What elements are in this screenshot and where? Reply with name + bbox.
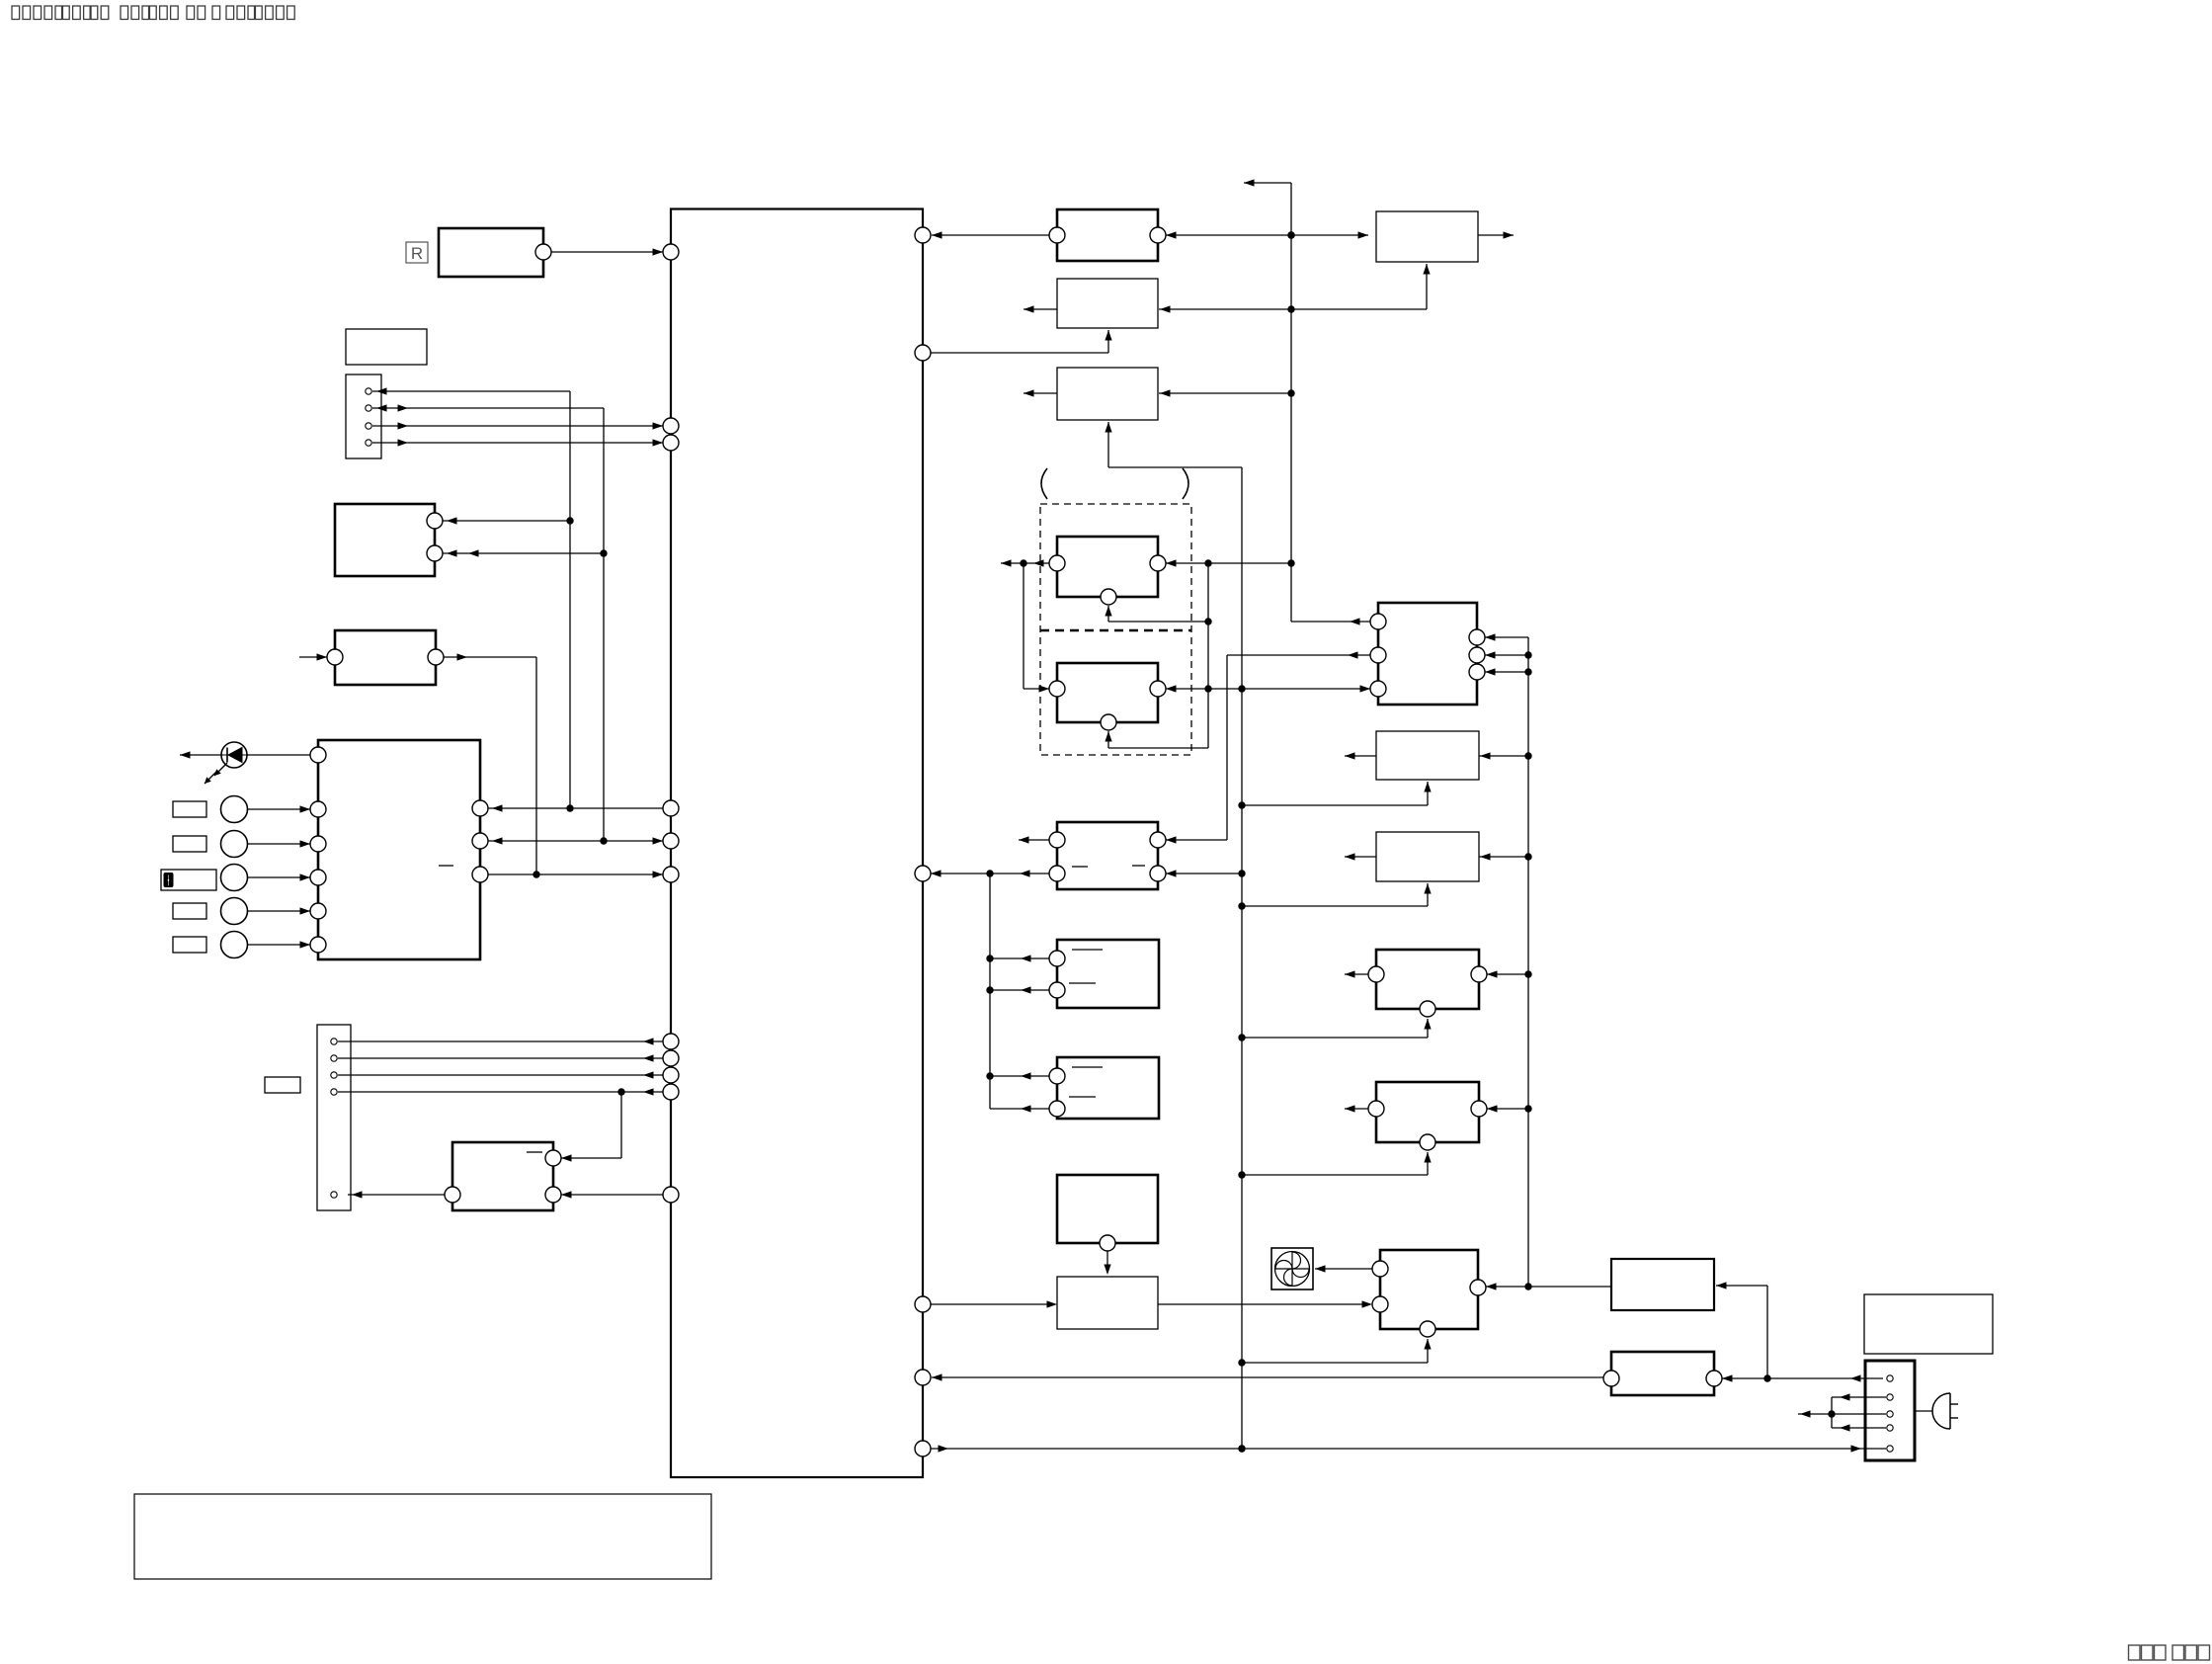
pin U1 right 1320	[915, 1296, 931, 1312]
wire row4 tap to Y1 upper-right pin	[561, 1092, 621, 1162]
wire to D2 bottom	[1105, 731, 1208, 748]
wire rail1257 to T4 bottom	[1105, 422, 1242, 467]
wire W2 pin2 to bus	[990, 1105, 1049, 1112]
wire V1 upper-left out	[1019, 836, 1049, 843]
wire U1 to R2 left	[932, 1373, 1603, 1380]
wire CN1 pin4 to U1	[372, 439, 663, 446]
net S1pin2 to V1 right-upper	[1166, 651, 1370, 843]
wires knobs to K1	[248, 805, 310, 948]
wire U1 to Y1 lower-right pin	[561, 1191, 663, 1198]
block M1	[1376, 731, 1479, 780]
wire M3 out left	[1345, 970, 1368, 977]
block D1 (optional)	[1049, 537, 1166, 605]
wire W1 pin1 to bus	[990, 955, 1049, 961]
wire T2 bottom feed	[1291, 264, 1431, 309]
wire M4 out left	[1345, 1105, 1368, 1112]
label box L2	[265, 1077, 300, 1093]
wire X1 to X2	[1104, 1251, 1110, 1275]
wire rail1257 to M2 bottom	[1242, 883, 1432, 906]
label box L1	[346, 329, 427, 365]
wire rail1257 to M1 bottom	[1242, 782, 1432, 805]
mains connector CN3	[1865, 1361, 1915, 1460]
wire D1 output left	[1001, 559, 1049, 566]
main system-control IC U1	[671, 209, 923, 1478]
wire T3 output left	[1024, 305, 1057, 312]
block M3 (thick)	[1368, 950, 1487, 1017]
wire T1 right to trunk to T2	[1166, 231, 1368, 238]
block T4	[1057, 368, 1158, 420]
front-panel key block K1	[310, 740, 488, 959]
block R1	[1611, 1259, 1714, 1310]
wire D2 right / rail to S1 pin3	[1166, 685, 1370, 692]
block X2	[1057, 1277, 1158, 1329]
wire rail to M1 right	[1479, 752, 1528, 759]
wire W2 pin1 to bus	[990, 1072, 1049, 1079]
wire feed to D1 right	[1166, 559, 1291, 566]
pin U1 left 1071	[663, 1050, 679, 1066]
wire T2 output	[1478, 231, 1514, 238]
AC plug symbol	[1915, 1393, 1958, 1429]
wire P2 to fan	[1315, 1265, 1372, 1272]
block T3	[1057, 279, 1158, 328]
title text placeholder boxes (missing glyphs)	[12, 6, 294, 20]
wire CN2 row4	[338, 1088, 663, 1095]
wire K1 row3 to U1	[488, 871, 663, 877]
wire V0 output to keys row3	[444, 653, 540, 877]
wire rail to M2 right	[1479, 853, 1528, 860]
driver block Y1	[445, 1142, 561, 1210]
key label rects	[173, 801, 206, 953]
power rail vertical x1257	[1238, 467, 1245, 1453]
block R3	[1864, 1294, 1993, 1354]
notes box	[134, 1494, 711, 1579]
wire B2 pin1 from vertical bus	[443, 517, 574, 524]
bottom-right page-number placeholder boxes	[2129, 1645, 2210, 1660]
block V1 (mute)	[1049, 822, 1166, 889]
pin U1 left 255	[663, 244, 679, 260]
wire input to V0	[299, 653, 327, 660]
block W1	[1049, 940, 1159, 1008]
connector CN1	[346, 374, 381, 458]
wire CN1 pin3 to U1	[372, 422, 663, 429]
pin U1 left 431	[663, 418, 679, 434]
wire CN2 row1	[338, 1038, 663, 1044]
wire to D1 bottom	[1105, 606, 1208, 622]
wire CN2 row3	[338, 1071, 663, 1078]
block W2	[1049, 1057, 1159, 1119]
wire rail to M4 right	[1487, 1105, 1528, 1112]
wire U1 to X2	[931, 1300, 1057, 1307]
wire rail1257 to P2 bottom	[1242, 1339, 1432, 1363]
wire M2 out left	[1345, 853, 1376, 860]
wire rail to M3 right	[1487, 970, 1528, 977]
pin U1 right 357	[915, 345, 931, 361]
wire CN1 pin1 net	[372, 387, 570, 808]
connector CN2	[317, 1025, 351, 1210]
selector block S1	[1370, 603, 1485, 705]
wire B2 pin2 from vertical bus	[443, 549, 608, 556]
wire K1 row1 to U1	[488, 804, 663, 811]
wire T4 output left	[1024, 389, 1057, 396]
wire CN3 pin3 output left	[1798, 1397, 1886, 1428]
bluetooth label rect	[161, 870, 216, 890]
LED D1 with wire	[180, 742, 310, 768]
pin U1 left 1054	[663, 1034, 679, 1049]
wire trunk to T3 right	[1159, 305, 1291, 312]
wire V1 lower-left to U1	[931, 870, 1049, 876]
wire rail to S1 right pin1	[1485, 633, 1528, 640]
wire trunk to T4 right	[1159, 389, 1291, 396]
interface block B2	[335, 504, 443, 576]
wire U1 to T1	[932, 231, 1049, 238]
wire to R2 right pin	[1722, 1374, 1771, 1381]
pin U1 left 448	[663, 435, 679, 451]
wire X2 to P2	[1158, 1300, 1372, 1307]
wire CN3 pin2 to bus	[1832, 1393, 1886, 1400]
buffer block V0	[327, 630, 444, 685]
pin U1 right 238	[915, 227, 931, 243]
wire K1 row2 to U1	[488, 837, 663, 844]
pin U1 left 851	[663, 833, 679, 849]
pin U1 left 885	[663, 867, 679, 882]
block M2	[1376, 832, 1479, 881]
pin U1 left 818	[663, 800, 679, 816]
wire rail to S1 right pin3	[1485, 668, 1528, 675]
wire M1 out left	[1345, 752, 1376, 759]
wire rail to S1 right pin2	[1485, 651, 1528, 658]
sensor block X1	[1057, 1175, 1158, 1251]
block D2 (optional)	[1049, 663, 1166, 730]
LED light rays	[205, 763, 227, 784]
trunk bus vertical x1307	[1244, 179, 1295, 622]
feed bus x1223	[1204, 563, 1211, 748]
wire R2 net to mains connector	[1767, 1374, 1883, 1381]
pin U1 right 1394	[915, 1370, 931, 1385]
wire rail1257 to M4 bottom	[1242, 1152, 1432, 1175]
wire S1 pin1 to trunk	[1291, 618, 1370, 624]
pin U1 right 1466	[915, 1441, 931, 1456]
block T2	[1376, 211, 1478, 262]
feed bus x1002	[986, 874, 993, 1109]
pin U1 right 884	[915, 866, 931, 881]
dashed optional boundary	[1040, 504, 1191, 755]
pin U1 left 1105	[663, 1084, 679, 1100]
wire U1 to T3 bottom	[931, 330, 1112, 353]
block M4 (thick)	[1368, 1082, 1487, 1150]
wire W1 pin2 to bus	[990, 986, 1049, 993]
fan icon	[1271, 1248, 1313, 1290]
wire CN2 row2	[338, 1054, 663, 1061]
power control block P2	[1372, 1250, 1486, 1337]
svg-text:ᛂ: ᛂ	[165, 874, 172, 887]
block T1 (thick, with pins)	[1049, 209, 1166, 261]
pin U1 left 1088	[663, 1067, 679, 1083]
rotary knobs/keys	[221, 796, 248, 958]
pin U1 left 1209	[663, 1187, 679, 1203]
wire B1 to U1 pin	[551, 248, 663, 255]
block R2 (thick)	[1603, 1352, 1722, 1395]
wire U1 output to mains connector pin5	[931, 1445, 1886, 1452]
wire CN1 pin2 net	[372, 404, 604, 841]
remote icon R	[406, 242, 428, 263]
wire rail1257 to M3 bottom	[1242, 1019, 1432, 1038]
svg-text:R: R	[411, 244, 423, 263]
wire main to R1 right	[1716, 1282, 1767, 1378]
wire rail1257 to V1 right-lower	[1166, 870, 1242, 876]
IR remote sensor block B1	[439, 228, 551, 277]
supply rail vertical x1547	[1524, 637, 1531, 1290]
wire CN3 pin4 to bus	[1832, 1424, 1886, 1431]
wire D1 out down to D2 in	[1024, 563, 1049, 693]
wire Y1 out to CN2 pin5	[348, 1191, 445, 1198]
wire R1 to P2 and rail1547	[1486, 1283, 1611, 1290]
parenthesis marks optional section	[1041, 468, 1188, 499]
